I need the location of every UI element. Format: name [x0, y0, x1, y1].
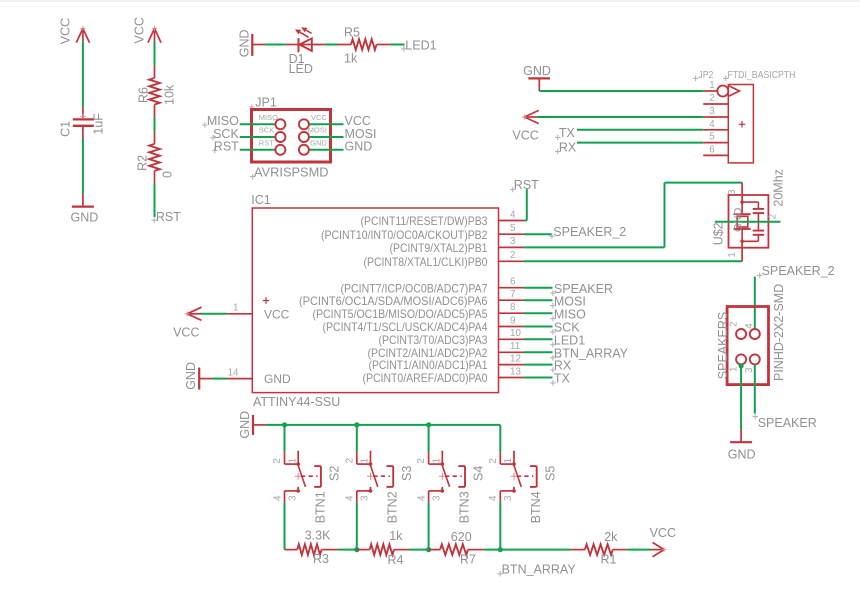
- wire (switch to bottom bus): [284, 502, 286, 549]
- wire: [484, 549, 571, 551]
- svg-text:PINHD-2X2-SMD: PINHD-2X2-SMD: [772, 284, 786, 381]
- svg-text:RST: RST: [156, 210, 181, 224]
- resonator pin 3 stub: [741, 183, 743, 203]
- net SPEAKER (IC right pin): [524, 287, 553, 289]
- svg-text:VCC: VCC: [173, 326, 199, 340]
- connector SPEAKERS box: [727, 307, 768, 385]
- svg-text:SPEAKER_2: SPEAKER_2: [762, 264, 835, 278]
- svg-text:3: 3: [431, 495, 442, 501]
- switch S4 (BTN3): [428, 452, 430, 464]
- top bus wire: [266, 424, 501, 426]
- connector JP2 FTDI box: [728, 85, 753, 163]
- JP1 net labels left: [202, 122, 208, 128]
- svg-text:11: 11: [510, 341, 520, 352]
- wire (bus to S3): [356, 425, 358, 452]
- svg-text:4: 4: [272, 495, 283, 501]
- connector JP1 label: [249, 104, 255, 110]
- svg-text:MISO: MISO: [259, 113, 278, 122]
- resonator internal capacitors: [742, 201, 758, 203]
- wire: [409, 549, 429, 551]
- svg-text:4: 4: [510, 209, 516, 220]
- IC1 pin 14 GND: [227, 378, 252, 380]
- svg-text:4: 4: [417, 495, 428, 501]
- wire: [390, 44, 405, 46]
- wire: [538, 116, 704, 118]
- net label LED1: [401, 46, 407, 52]
- svg-text:GND: GND: [238, 411, 252, 439]
- net BTN_ARRAY (IC right pin): [524, 351, 553, 353]
- svg-text:VCC: VCC: [512, 128, 538, 142]
- svg-text:6: 6: [510, 277, 516, 288]
- svg-text:SPEAKER_2: SPEAKER_2: [553, 225, 626, 239]
- svg-text:3: 3: [503, 495, 514, 501]
- svg-text:3: 3: [709, 106, 715, 117]
- svg-text:VCC: VCC: [264, 307, 290, 321]
- power VCC arrow (FTDI pin3): [524, 116, 537, 118]
- IC1 pin 10 PA3: [499, 338, 524, 340]
- wire: [200, 313, 227, 315]
- svg-text:GND: GND: [732, 208, 744, 233]
- svg-text:R6: R6: [137, 87, 151, 103]
- svg-text:5: 5: [510, 223, 516, 234]
- IC1 pin 11 PA2: [499, 351, 524, 353]
- svg-text:GND: GND: [345, 140, 373, 154]
- svg-text:3: 3: [360, 495, 371, 501]
- svg-text:4: 4: [709, 119, 715, 130]
- wire GND from pad1: [740, 364, 742, 429]
- resonator internal crystal: [741, 202, 743, 214]
- wire: [754, 277, 756, 329]
- IC1 pin 4 PB3: [499, 220, 524, 222]
- net MISO (IC right pin): [524, 312, 553, 314]
- svg-text:MOSI: MOSI: [554, 294, 586, 308]
- net label BTN_ARRAY: [497, 571, 503, 577]
- wire (bus to S5): [499, 425, 501, 452]
- svg-text:R7: R7: [460, 553, 476, 567]
- connector JP1 AVRISPSMD box: [252, 110, 331, 163]
- svg-text:ATTINY44-SSU: ATTINY44-SSU: [253, 395, 340, 409]
- svg-text:(PCINT3/T0/ADC3)PA3: (PCINT3/T0/ADC3)PA3: [379, 333, 488, 347]
- svg-text:2: 2: [510, 250, 515, 261]
- resonator U$2 box: [729, 195, 769, 248]
- resonator pin 1 stub: [741, 241, 743, 261]
- svg-text:(PCINT8/XTAL1/CLKI)PB0: (PCINT8/XTAL1/CLKI)PB0: [364, 255, 488, 269]
- svg-text:RST: RST: [514, 178, 539, 192]
- svg-text:2: 2: [272, 458, 283, 463]
- power VCC symbol (top-left): [82, 28, 84, 41]
- FTDI pin 4: [703, 129, 728, 131]
- svg-text:R3: R3: [313, 552, 329, 566]
- svg-text:3: 3: [510, 236, 516, 247]
- svg-text:1k: 1k: [344, 52, 358, 66]
- svg-text:20Mhz: 20Mhz: [771, 169, 785, 207]
- IC1 pin 12 PA1: [499, 364, 524, 366]
- SPEAKERS pads: [736, 329, 746, 339]
- svg-text:GND: GND: [310, 138, 327, 147]
- svg-text:2: 2: [709, 93, 714, 104]
- IC1 pin 13 PA0: [499, 377, 524, 379]
- svg-text:MOSI: MOSI: [308, 126, 327, 135]
- svg-text:13: 13: [510, 366, 521, 377]
- svg-text:R4: R4: [388, 553, 404, 567]
- IC1 pin 2 PB0: [499, 260, 524, 262]
- svg-text:TX: TX: [559, 126, 576, 140]
- switch S5 (BTN4): [499, 452, 501, 464]
- wire: [154, 117, 156, 131]
- FTDI pin 6: [703, 154, 728, 156]
- resistor R7 620: [429, 549, 441, 551]
- svg-text:BTN_ARRAY: BTN_ARRAY: [502, 562, 577, 576]
- IC1 pin 6 PA7: [499, 287, 524, 289]
- svg-text:GND: GND: [523, 64, 551, 78]
- svg-text:VCC: VCC: [58, 18, 72, 44]
- svg-text:VCC: VCC: [133, 17, 147, 43]
- svg-text:2: 2: [416, 458, 427, 463]
- svg-text:4: 4: [345, 495, 356, 501]
- net SPEAKER_2 (IC pin5): [524, 233, 552, 235]
- net SCK (IC right pin): [524, 326, 553, 328]
- svg-text:SPEAKERS: SPEAKERS: [716, 312, 730, 379]
- net label TX: [555, 135, 561, 141]
- svg-text:1: 1: [431, 458, 442, 463]
- IC1 pin 7 PA6: [499, 299, 524, 301]
- svg-text:3.3K: 3.3K: [305, 528, 331, 542]
- svg-text:2: 2: [344, 458, 355, 463]
- svg-text:LED1: LED1: [405, 38, 436, 52]
- svg-text:R5: R5: [344, 26, 360, 40]
- resistor R1 2k: [571, 549, 585, 551]
- svg-text:VCC: VCC: [311, 113, 327, 122]
- svg-text:GND: GND: [728, 448, 756, 462]
- svg-text:12: 12: [510, 353, 521, 364]
- svg-text:GND: GND: [238, 29, 252, 57]
- top border line: [0, 0, 860, 2]
- svg-text:4: 4: [744, 323, 755, 329]
- svg-text:BTN1: BTN1: [313, 491, 327, 523]
- svg-text:BTN2: BTN2: [386, 491, 400, 523]
- svg-text:14: 14: [228, 368, 239, 379]
- junction: [426, 422, 431, 427]
- resistor R5 1k: [338, 44, 352, 46]
- IC1 pin 3 PB1: [499, 246, 524, 248]
- wire: [324, 44, 337, 46]
- svg-text:1: 1: [287, 458, 298, 463]
- wire (bus to S2): [284, 425, 286, 452]
- svg-text:(PCINT1/AIN0/ADC1)PA1: (PCINT1/AIN0/ADC1)PA1: [369, 358, 488, 372]
- svg-text:8: 8: [510, 302, 516, 313]
- svg-text:S5: S5: [543, 466, 557, 481]
- svg-text:VCC: VCC: [650, 526, 676, 540]
- wire: [577, 142, 703, 144]
- wire (switch to bottom bus): [499, 502, 501, 549]
- switch S2 (BTN1): [284, 452, 286, 464]
- wire: [539, 90, 703, 92]
- net label RST: [151, 217, 157, 223]
- svg-text:S2: S2: [328, 466, 342, 481]
- svg-text:(PCINT11/RESET/DW)PB3: (PCINT11/RESET/DW)PB3: [361, 214, 488, 228]
- wire: [82, 139, 84, 195]
- svg-text:1: 1: [727, 252, 738, 257]
- svg-text:RX: RX: [559, 140, 577, 154]
- power VCC arrow (IC1 pin1): [187, 313, 200, 315]
- wire: [627, 549, 651, 551]
- svg-text:BTN3: BTN3: [458, 491, 472, 523]
- svg-text:2: 2: [729, 322, 740, 327]
- power VCC arrow (bottom right): [651, 549, 664, 551]
- wire to RST: [154, 184, 156, 217]
- svg-text:R2: R2: [135, 155, 149, 171]
- svg-text:1: 1: [233, 303, 238, 314]
- net TX (IC right pin): [524, 377, 553, 379]
- IC1 pin 8 PA5: [499, 312, 524, 314]
- wire: [82, 42, 84, 107]
- JP1 wires right (VCC MOSI GND): [309, 123, 344, 125]
- label AVRISPSMD: [250, 174, 256, 180]
- svg-text:1: 1: [503, 458, 514, 463]
- svg-text:0: 0: [160, 171, 174, 178]
- svg-text:RX: RX: [554, 359, 572, 373]
- ground symbol (IC1 pin14, rotated): [198, 368, 200, 390]
- wire (switch to bottom bus): [428, 502, 430, 549]
- junction: [354, 547, 359, 552]
- svg-text:4: 4: [488, 495, 499, 501]
- svg-text:2k: 2k: [604, 530, 618, 544]
- svg-text:1: 1: [360, 458, 371, 463]
- JP1 pads: [275, 119, 285, 129]
- net XTAL1 wire (IC pin2 to resonator pin1): [524, 260, 742, 262]
- svg-text:SPEAKER: SPEAKER: [758, 416, 817, 430]
- wire: [212, 378, 227, 380]
- JP1 wires left (MISO SCK RST): [240, 123, 276, 125]
- switch S3 (BTN2): [356, 452, 358, 464]
- svg-text:FTDI_BASICPTH: FTDI_BASICPTH: [728, 70, 796, 81]
- svg-text:(PCINT10/INT0/OC0A/CKOUT)PB2: (PCINT10/INT0/OC0A/CKOUT)PB2: [321, 228, 488, 242]
- svg-text:3: 3: [727, 189, 738, 195]
- IC1 pin 5 PB2: [499, 233, 524, 235]
- svg-text:GND: GND: [71, 210, 99, 224]
- svg-text:BTN4: BTN4: [529, 491, 543, 523]
- svg-text:1: 1: [729, 367, 740, 372]
- net label SPEAKER: [752, 414, 758, 420]
- FTDI pin 5: [703, 142, 728, 144]
- resistor R6 10k: [154, 65, 156, 78]
- svg-text:6: 6: [709, 144, 715, 155]
- svg-text:(PCINT6/OC1A/SDA/MOSI/ADC6)PA6: (PCINT6/OC1A/SDA/MOSI/ADC6)PA6: [299, 294, 488, 308]
- net label SPEAKER_2 (top): [757, 273, 763, 279]
- net LED1 (IC right pin): [524, 338, 553, 340]
- power VCC symbol (second column): [154, 28, 156, 41]
- svg-text:1: 1: [709, 80, 714, 91]
- svg-text:1k: 1k: [389, 529, 403, 543]
- svg-text:S3: S3: [400, 466, 414, 481]
- svg-text:2: 2: [488, 458, 499, 463]
- net MOSI (IC right pin): [524, 299, 553, 301]
- svg-text:(PCINT9/XTAL2)PB1: (PCINT9/XTAL2)PB1: [390, 241, 488, 255]
- svg-text:5: 5: [709, 132, 715, 143]
- LED D1: [286, 44, 299, 46]
- FTDI pin 3: [703, 116, 728, 118]
- svg-text:MISO: MISO: [554, 307, 586, 321]
- svg-text:3: 3: [287, 495, 298, 501]
- junction: [354, 422, 359, 427]
- svg-text:(PCINT5/OC1B/MISO/DO/ADC5)PA5: (PCINT5/OC1B/MISO/DO/ADC5)PA5: [313, 307, 488, 321]
- resistor R2 0: [154, 131, 156, 144]
- FTDI pin 1: [703, 90, 717, 92]
- svg-text:9: 9: [510, 315, 515, 326]
- svg-text:JP1: JP1: [255, 95, 277, 109]
- capacitor C1: [82, 107, 84, 119]
- wire: [577, 129, 703, 131]
- wire (bus to S4): [428, 425, 430, 452]
- wire (switch to bottom bus): [356, 502, 358, 549]
- svg-text:10: 10: [510, 328, 521, 339]
- wire: [154, 42, 156, 66]
- resistor R3 3.3K: [285, 549, 298, 551]
- wire SPEAKER from pad3: [754, 364, 756, 413]
- ground symbol GND (speakers): [740, 430, 742, 443]
- svg-text:GND: GND: [184, 362, 198, 390]
- net label RX: [555, 149, 561, 155]
- svg-text:TX: TX: [554, 372, 571, 386]
- svg-text:GND: GND: [264, 372, 291, 386]
- wire: [338, 549, 357, 551]
- svg-text:RST: RST: [214, 140, 239, 154]
- svg-text:7: 7: [510, 289, 515, 300]
- net RX (IC right pin): [524, 364, 553, 366]
- svg-text:10k: 10k: [162, 84, 176, 105]
- svg-text:IC1: IC1: [251, 193, 270, 207]
- svg-text:620: 620: [451, 530, 472, 544]
- IC1 pin 1 VCC: [227, 313, 252, 315]
- IC1 pin 9 PA4: [499, 326, 524, 328]
- IC1 plus mark: [263, 297, 270, 304]
- label FTDI_BASICPTH: [723, 76, 729, 82]
- connector JP2 label: [693, 76, 699, 82]
- svg-text:AVRISPSMD: AVRISPSMD: [254, 165, 329, 179]
- junction: [498, 547, 503, 552]
- svg-text:R1: R1: [601, 553, 617, 567]
- junction: [739, 363, 744, 368]
- svg-text:3: 3: [744, 367, 755, 373]
- ground symbol GND (below C1): [82, 194, 84, 207]
- resistor R4 1k: [357, 549, 370, 551]
- resonator GND wire (pin 2): [715, 221, 781, 223]
- IC IC1 ATTINY44-SSU box: [252, 208, 498, 393]
- FTDI plus mark: [739, 121, 746, 128]
- svg-text:LED1: LED1: [554, 333, 585, 347]
- svg-text:C1: C1: [58, 121, 72, 137]
- ground symbol GND (LED row, rotated): [251, 34, 253, 56]
- svg-text:2: 2: [768, 214, 779, 219]
- svg-text:SCK: SCK: [259, 126, 274, 135]
- net XTAL2 wire (IC pin3 to resonator pin3): [524, 246, 665, 248]
- svg-text:RST: RST: [259, 138, 274, 147]
- svg-text:LED: LED: [289, 62, 313, 76]
- svg-text:S4: S4: [472, 466, 486, 481]
- wire: [265, 44, 286, 46]
- svg-text:U$2: U$2: [712, 222, 726, 245]
- svg-text:1uF: 1uF: [92, 113, 106, 135]
- net RST (to IC pin4): [524, 220, 527, 222]
- svg-text:(PCINT0/AREF/ADC0)PA0: (PCINT0/AREF/ADC0)PA0: [363, 371, 488, 385]
- junction: [426, 547, 431, 552]
- FTDI pin 2: [703, 103, 728, 105]
- junction: [282, 422, 287, 427]
